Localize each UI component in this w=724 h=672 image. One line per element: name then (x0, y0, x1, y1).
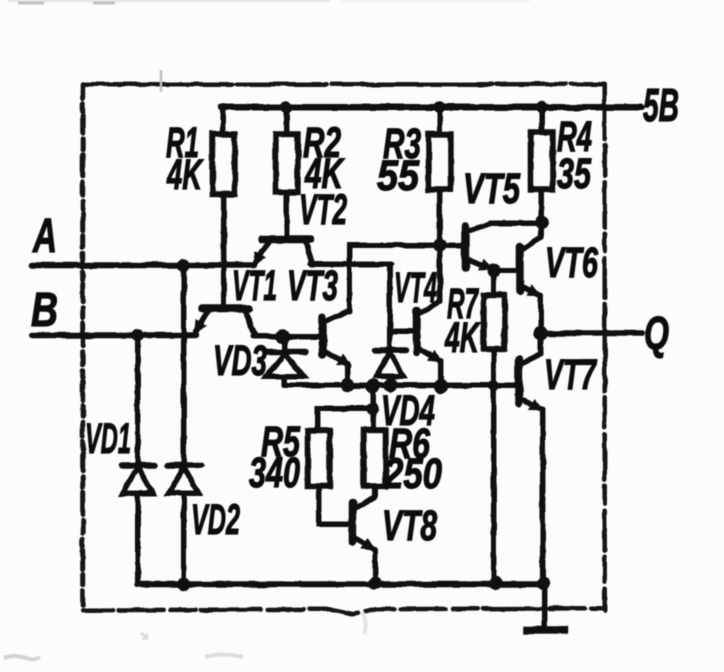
wire VT3 base (283, 333, 320, 339)
transistor VT2 (254, 239, 312, 264)
ground (542, 584, 548, 626)
scan artifact: smudge near 145,635 (141, 633, 148, 640)
transistor VT8 (353, 497, 374, 549)
node R7 ground (489, 577, 502, 590)
resistor R7 (484, 295, 505, 349)
svg-text:VT4: VT4 (394, 264, 437, 312)
transistor VT4 (417, 301, 441, 361)
input line B (32, 332, 196, 338)
wire VT7 emitter down (540, 409, 546, 583)
transistor VT7 (519, 354, 542, 409)
output node Q (534, 326, 548, 340)
svg-text:VD3: VD3 (213, 337, 267, 385)
transistor VT5 (466, 223, 491, 269)
base line of VT7 (VD3 to VT7) (285, 382, 516, 388)
diode VD3 (265, 336, 306, 385)
node VD4 bottom (384, 378, 398, 392)
diode VD2 (168, 265, 201, 584)
wire VT3 collector riser to R3 node (350, 245, 466, 311)
node VT8 emitter ground (368, 577, 381, 590)
input line A (32, 262, 254, 268)
node VT4 emitter (434, 379, 448, 393)
transistor VT3 (323, 310, 350, 365)
output line to Q (541, 330, 643, 336)
svg-text:5В: 5В (643, 79, 679, 131)
svg-text:VD2: VD2 (191, 496, 240, 544)
wire R3 top (437, 107, 443, 134)
wire branch to R5 R6 (318, 386, 373, 430)
wire R2 top (284, 107, 290, 134)
node A to VD2 junction (177, 259, 190, 272)
wire R1 top (220, 107, 226, 134)
svg-text:35: 35 (557, 150, 592, 198)
svg-text:B: B (31, 284, 58, 337)
scan artifact: gray blob right of VT8 (362, 612, 366, 634)
wire VT6 base (494, 267, 517, 273)
wire R4 top (539, 107, 545, 132)
wire R1 bottom to VT1 base (221, 194, 227, 305)
transistor VT6 (520, 223, 541, 295)
node R3 rail junction (434, 101, 446, 113)
svg-text:Q: Q (644, 307, 669, 359)
node R2 rail junction (281, 101, 293, 113)
diode VD1 (122, 335, 155, 584)
node VT3 emitter on base line (341, 378, 355, 392)
svg-text:4K: 4K (166, 151, 204, 199)
svg-text:VT7: VT7 (544, 351, 597, 399)
wire R5 bottom to VT8 base (319, 486, 350, 524)
svg-text:VT5: VT5 (463, 165, 521, 213)
wire VT6 emitter to output node (538, 295, 544, 333)
node R4 bottom / VT5 collector (535, 215, 549, 229)
wire VT5 collector to R4 node (490, 220, 542, 226)
wire R7 bottom to ground rail (491, 349, 497, 583)
svg-text:VD1: VD1 (85, 415, 131, 463)
svg-text:55: 55 (377, 152, 420, 200)
node VT1 collector / VD3 (276, 329, 290, 343)
wire VT1 collector to node (254, 333, 283, 339)
scan artifact: tick on top border (160, 70, 163, 92)
wire VD4 branch vertical (387, 264, 393, 350)
node R5/R6 branch (366, 379, 380, 393)
resistor R3 (429, 134, 451, 189)
svg-text:250: 250 (383, 450, 442, 498)
svg-text:VT6: VT6 (545, 239, 599, 287)
scan artifact: smudge bottom middle (205, 655, 243, 658)
wire VT2 collector run (311, 261, 391, 267)
wire R7 top (491, 270, 497, 295)
node VT7 emitter ground (537, 577, 550, 590)
scan artifact: bottom-left smudge (4, 656, 40, 659)
node VT5 emitter / R7 / VT6 base (487, 263, 501, 277)
node VD2 ground (177, 578, 190, 591)
transistor VT1 (196, 308, 255, 334)
wire R3 bottom (437, 189, 443, 299)
ground rail (138, 581, 545, 587)
svg-text:4K: 4K (444, 314, 480, 362)
svg-text:VT8: VT8 (382, 502, 437, 550)
svg-text:VT3: VT3 (287, 262, 338, 310)
wire VT4 collector riser (437, 245, 443, 301)
resistor R4 (531, 132, 553, 189)
node R5/R6 split (367, 402, 379, 414)
resistor R1 (213, 134, 235, 194)
svg-text:A: A (32, 210, 57, 263)
5V power rail (222, 104, 642, 111)
wire VT4 emitter down (438, 360, 444, 385)
svg-text:VT2: VT2 (299, 186, 347, 234)
wire R4 bottom (539, 189, 545, 222)
wire VT7 collector (538, 333, 544, 354)
resistor R2 (276, 134, 298, 192)
wire VT8 emitter to ground rail (372, 549, 378, 583)
wire R6 bottom (372, 486, 378, 496)
border frame dashed (83, 84, 605, 614)
node R3 junction (433, 238, 447, 252)
wire R2 bottom to VT2 base (284, 192, 290, 236)
svg-text:VT1: VT1 (232, 262, 277, 310)
wire VT3 emitter down (345, 364, 351, 385)
resistor R6 (364, 430, 386, 486)
node B to VD1 junction (131, 329, 144, 342)
wire VT4 base (390, 328, 414, 334)
diode VD4 (375, 350, 406, 385)
resistor R5 (308, 430, 330, 486)
scan artifact: top edge line (8, 0, 330, 2)
node R4 rail junction (536, 101, 548, 113)
node R7 crossing (488, 380, 499, 391)
svg-text:340: 340 (249, 449, 300, 497)
